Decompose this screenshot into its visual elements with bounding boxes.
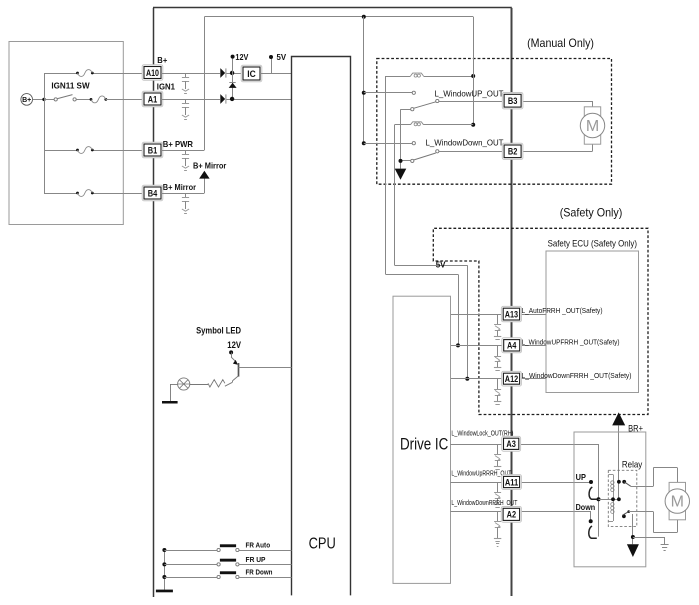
node Down contact junction bbox=[362, 141, 366, 145]
svg-text:IC: IC bbox=[247, 69, 256, 79]
svg-text:A11: A11 bbox=[505, 477, 518, 487]
svg-text:B+: B+ bbox=[22, 97, 31, 104]
wire A10 row bbox=[161, 73, 220, 75]
capacitor on B4 row bbox=[185, 193, 187, 197]
connector B4 bbox=[142, 185, 163, 201]
IC U1 bbox=[241, 65, 262, 82]
svg-text:B4: B4 bbox=[148, 188, 158, 198]
power 12V bbox=[232, 58, 234, 73]
wire coil tap to blade common bbox=[599, 499, 619, 501]
svg-text:FR UP: FR UP bbox=[246, 555, 266, 564]
svg-text:A12: A12 bbox=[505, 374, 518, 384]
LED lamp symbol bbox=[178, 378, 190, 390]
node UP blade to lock line bbox=[597, 497, 601, 501]
svg-text:A13: A13 bbox=[505, 309, 518, 319]
wire LED to ground bbox=[170, 384, 178, 386]
wire IC output to CPU bbox=[260, 73, 292, 75]
connector B2 bbox=[502, 143, 523, 159]
node Down switch contact bbox=[589, 519, 593, 523]
svg-text:UP: UP bbox=[576, 472, 587, 482]
node UP switch contact bbox=[589, 480, 593, 484]
wire module left edge bbox=[153, 8, 155, 597]
Safety ECU box bbox=[546, 251, 639, 393]
ground (B-) triangle bbox=[627, 544, 639, 557]
contact UP (normally open) bbox=[412, 91, 415, 94]
rear switch box bbox=[574, 432, 646, 567]
wire to fuse F2 bbox=[76, 99, 91, 101]
capacitor on A2 row bbox=[497, 511, 499, 522]
node coil row 2 junction bbox=[471, 123, 475, 127]
wire A4 row bbox=[451, 345, 504, 347]
wire D1 to IC bbox=[227, 73, 244, 75]
wire fuse row 3 bbox=[44, 150, 78, 152]
CPU block bbox=[292, 57, 351, 596]
svg-text:(Manual Only): (Manual Only) bbox=[527, 36, 594, 50]
node blade common junction bbox=[399, 159, 403, 163]
wire A2 down to Down switch bbox=[590, 511, 592, 521]
wire relay NC to ground bbox=[632, 514, 634, 544]
node FR Auto junction bbox=[162, 548, 166, 552]
safety dashed box bbox=[433, 228, 648, 414]
svg-text:(Safety Only): (Safety Only) bbox=[560, 205, 623, 219]
switch blade UP bbox=[411, 108, 414, 111]
connector A1 bbox=[142, 91, 163, 107]
switch blade Down (rear) bbox=[589, 526, 597, 538]
relay contact upper bbox=[624, 482, 631, 487]
wire B4 row (B+ Mirror) bbox=[161, 193, 204, 195]
diode D3 (vertical, between rails) bbox=[232, 73, 234, 99]
wire B2 to motor bbox=[592, 145, 594, 152]
capacitor on A4 row bbox=[497, 345, 499, 356]
wire FR Down row bbox=[164, 577, 217, 579]
power BR+ symbol bbox=[612, 412, 625, 425]
svg-text:A3: A3 bbox=[506, 439, 516, 449]
wire Down contact row bbox=[364, 143, 412, 145]
Drive IC box bbox=[393, 296, 451, 583]
node coil row 1 to rail riser bbox=[471, 74, 475, 78]
node relay contact pivot upper bbox=[617, 480, 621, 484]
wire FR Auto row bbox=[164, 550, 217, 552]
svg-text:A2: A2 bbox=[507, 510, 517, 520]
svg-text:B+ PWR: B+ PWR bbox=[163, 139, 193, 149]
switch FR Auto bbox=[217, 548, 220, 551]
wire IGN11 SW row bbox=[44, 99, 54, 101]
wire module top edge bbox=[153, 7, 512, 9]
connector A10 bbox=[142, 65, 163, 81]
connector A13 bbox=[501, 306, 521, 321]
capacitor on A10 row bbox=[185, 73, 187, 77]
svg-text:B+: B+ bbox=[157, 55, 167, 65]
connector A2 bbox=[501, 507, 521, 523]
node FR UP junction bbox=[162, 562, 166, 566]
svg-text:Down: Down bbox=[576, 502, 596, 512]
wire B3 row bbox=[439, 101, 504, 103]
svg-text:Drive IC: Drive IC bbox=[400, 436, 449, 454]
svg-text:5V: 5V bbox=[436, 260, 446, 269]
wire B+ PWR riser to rail bbox=[204, 17, 206, 150]
wire Down coil to A12 net bbox=[394, 125, 396, 266]
node relay coil tap bbox=[611, 497, 615, 501]
node 12V junction on A10 row bbox=[230, 71, 234, 75]
wire fuse F2 to A1 bbox=[106, 99, 144, 101]
wire A2 row bbox=[451, 511, 504, 513]
svg-text:Symbol LED: Symbol LED bbox=[196, 325, 241, 335]
fuse F4 bbox=[76, 192, 79, 195]
wire collector to resistor bbox=[232, 381, 234, 382]
svg-text:L_WindowUP_OUT: L_WindowUP_OUT bbox=[435, 89, 505, 99]
relay coil bbox=[608, 474, 613, 476]
resistor R1 bbox=[208, 380, 225, 387]
svg-text:A1: A1 bbox=[148, 94, 158, 104]
svg-text:B3: B3 bbox=[508, 96, 518, 106]
wire base to CPU bbox=[239, 367, 292, 369]
connector A11 bbox=[502, 475, 522, 490]
switch IGN11 SW bbox=[54, 98, 57, 101]
wire FR UP row bbox=[164, 564, 217, 566]
node relay common bbox=[617, 497, 621, 501]
node A4 row junction bbox=[456, 343, 460, 347]
node D2/D3 junction bbox=[230, 97, 234, 101]
wire resistor to LED bbox=[190, 384, 208, 386]
switch FR Down bbox=[217, 575, 220, 578]
wire blade pivots to ground bbox=[401, 109, 411, 111]
wire A3 to switch common bbox=[598, 444, 600, 537]
capacitor on A12 row bbox=[497, 379, 499, 390]
node relay contact lower bbox=[622, 514, 626, 518]
manual switch dashed box bbox=[377, 59, 612, 185]
wire B+ feed bbox=[33, 99, 45, 101]
wire D2 to CPU bbox=[227, 99, 292, 101]
wire B1 row (B+ PWR) bbox=[161, 150, 204, 152]
svg-text:L_WindowDownRRRH_OUT: L_WindowDownRRRH_OUT bbox=[451, 498, 517, 507]
wire A3 row bbox=[451, 444, 504, 446]
wire A1 row bbox=[161, 99, 220, 101]
coil L1 (window UP) bbox=[411, 73, 424, 76]
wire coil row 1 (UP) bbox=[386, 76, 411, 78]
connector A4 bbox=[502, 338, 522, 353]
wire UP coil to A4 net bbox=[385, 76, 387, 274]
capacitor on A1 row bbox=[185, 99, 187, 103]
wire relay upper output to motor top bbox=[631, 486, 654, 488]
power 5V bbox=[271, 59, 273, 74]
svg-text:FR Auto: FR Auto bbox=[246, 541, 271, 550]
svg-text:A4: A4 bbox=[507, 341, 517, 351]
transistor Q1 (PNP) bbox=[231, 357, 237, 362]
wire A13 row bbox=[451, 314, 504, 316]
switch FR UP bbox=[217, 563, 220, 566]
wire FR common vertical bbox=[164, 550, 166, 590]
node UP contact junction bbox=[362, 91, 366, 95]
svg-text:B2: B2 bbox=[508, 147, 518, 157]
wire UP contact row bbox=[364, 92, 412, 94]
svg-text:M: M bbox=[671, 494, 684, 511]
svg-text:Safety ECU (Safety Only): Safety ECU (Safety Only) bbox=[548, 239, 637, 249]
svg-text:A10: A10 bbox=[146, 68, 159, 78]
contact Down (normally open) bbox=[412, 142, 415, 145]
wire A11 row bbox=[451, 482, 504, 484]
wire B3 to motor bbox=[592, 101, 594, 107]
svg-text:5V: 5V bbox=[277, 52, 287, 62]
node B+ feed junction bbox=[42, 98, 45, 101]
svg-text:IGN11 SW: IGN11 SW bbox=[51, 82, 90, 91]
node A12 row junction bbox=[465, 377, 469, 381]
wire B2 row bbox=[439, 151, 504, 153]
relay contact lower bbox=[623, 512, 629, 516]
svg-text:L_WindowDownFRRH _OUT(Safety): L_WindowDownFRRH _OUT(Safety) bbox=[522, 371, 632, 380]
wire B+ riser to contacts bbox=[363, 17, 365, 143]
wire relay lower output to motor bottom bbox=[629, 511, 654, 513]
battery supply box bbox=[9, 42, 123, 225]
wire B+ vertical feed bbox=[44, 73, 46, 193]
svg-text:CPU: CPU bbox=[309, 536, 336, 553]
svg-text:B+ Mirror: B+ Mirror bbox=[163, 182, 197, 192]
svg-text:12V: 12V bbox=[235, 52, 248, 62]
diode D1 bbox=[220, 68, 225, 78]
connector A12 bbox=[502, 371, 522, 386]
capacitor on A3 row bbox=[497, 444, 499, 455]
switch blade UP (rear) bbox=[589, 487, 597, 499]
diode D2 bbox=[220, 94, 225, 104]
battery B+ terminal bbox=[21, 94, 33, 106]
svg-text:L_WindowUPFRRH _OUT(Safety): L_WindowUPFRRH _OUT(Safety) bbox=[522, 337, 620, 346]
connector B1 bbox=[142, 142, 163, 158]
wire 12V to transistor emitter bbox=[231, 352, 233, 357]
ground (LED) bbox=[162, 401, 178, 404]
node FR Down junction bbox=[162, 575, 166, 579]
svg-text:Relay: Relay bbox=[622, 459, 643, 469]
svg-text:B+ Mirror: B+ Mirror bbox=[193, 160, 227, 170]
wire fuse row 1 bbox=[44, 73, 78, 75]
svg-text:L_WindowDown_OUT: L_WindowDown_OUT bbox=[426, 137, 505, 147]
junction on B+ rail bbox=[362, 15, 366, 19]
wire ground junction to chassis bbox=[633, 537, 665, 539]
ground (FR switches) bbox=[156, 590, 173, 593]
fuse F1 bbox=[76, 72, 79, 75]
wire coil row 2 (Down) bbox=[395, 124, 411, 126]
svg-text:IGN1: IGN1 bbox=[157, 82, 175, 92]
connector A3 bbox=[502, 436, 521, 451]
connector B3 bbox=[502, 93, 523, 109]
node internal B+ rail (top) bbox=[204, 16, 473, 18]
capacitor on B1 row bbox=[185, 150, 187, 154]
power B+ Mirror symbol bbox=[199, 171, 210, 179]
motor M1 (front window) bbox=[584, 107, 600, 144]
fuse F3 bbox=[76, 149, 79, 152]
wire rail riser to coils bbox=[473, 17, 475, 125]
svg-text:L_AutoFRRH _OUT(Safety): L_AutoFRRH _OUT(Safety) bbox=[522, 306, 603, 315]
node ground junction bbox=[631, 535, 635, 539]
ground (chassis, small) bbox=[661, 544, 669, 546]
wire B4 riser bbox=[204, 178, 206, 193]
svg-text:M: M bbox=[586, 118, 599, 135]
capacitor on A13 row bbox=[497, 314, 499, 325]
svg-text:FR Down: FR Down bbox=[246, 568, 273, 577]
svg-text:12V: 12V bbox=[227, 340, 241, 350]
svg-text:B1: B1 bbox=[148, 145, 158, 155]
relay K1 dashed box bbox=[608, 470, 637, 526]
coil L2 (window Down) bbox=[411, 122, 424, 125]
wire module right edge (main vertical bus) bbox=[511, 8, 513, 596]
switch blade Down bbox=[411, 159, 414, 162]
wire A12 row bbox=[451, 378, 504, 380]
wire BR+ to relay common bbox=[618, 425, 620, 499]
capacitor on A11 row bbox=[497, 482, 499, 493]
wire fuse row 4 bbox=[44, 193, 78, 195]
motor M2 (rear window) bbox=[669, 482, 685, 519]
fuse F2 bbox=[90, 98, 93, 101]
ground (manual switch) bbox=[395, 169, 407, 180]
